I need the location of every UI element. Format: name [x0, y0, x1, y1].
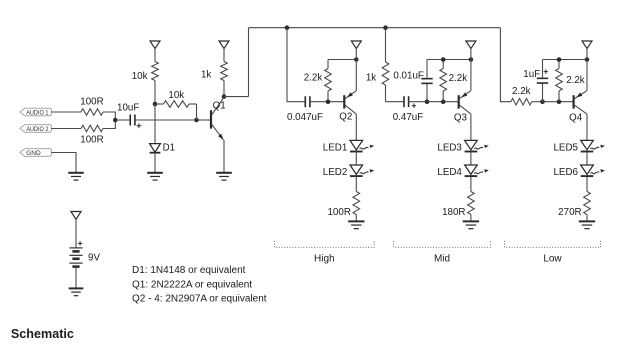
junction Q2 emitter node — [354, 57, 359, 62]
node AUDIO 1 input connector — [20, 108, 51, 116]
LED3 — [437, 140, 488, 153]
wire LED5 to LED6 — [586, 152, 588, 165]
junction bus tap (High) — [285, 25, 290, 30]
wire AUDIO1 to R1 — [51, 111, 81, 113]
svg-text:270R: 270R — [558, 207, 581, 218]
wire LED1 to LED2 — [355, 152, 357, 165]
wire 270R to ground — [586, 215, 588, 222]
ground (battery -) — [69, 288, 84, 295]
capacitor 0.01uF — [393, 60, 432, 102]
ground (Mid chain) — [463, 221, 479, 228]
resistor 100R (audio1) — [80, 96, 103, 115]
LED2 — [323, 165, 374, 178]
wire 180R to ground — [470, 215, 472, 222]
power symbol (Q3 emitter) — [466, 41, 476, 60]
LED5 — [553, 140, 604, 153]
wire LED6 to 270R — [586, 177, 588, 192]
junction Q3 base node — [441, 99, 446, 104]
resistor 1k (Q1 collector) — [201, 62, 227, 97]
power symbol (Q2 emitter) — [351, 41, 361, 60]
LED1 — [323, 140, 374, 153]
svg-text:10k: 10k — [132, 71, 148, 82]
resistor 10k (series) — [155, 90, 197, 108]
junction Q1 collector node — [222, 94, 227, 99]
LED4 — [437, 165, 488, 178]
svg-text:AUDIO 2: AUDIO 2 — [26, 126, 49, 133]
resistor 1k (Mid feed) — [366, 28, 389, 102]
note Q2-4 value — [132, 294, 267, 305]
LED6 — [553, 165, 604, 178]
svg-text:D1: 1N4148 or equivalent: D1: 1N4148 or equivalent — [132, 265, 246, 276]
resistor 100R (High) — [327, 192, 359, 218]
wire battery to ground — [75, 267, 77, 289]
wire C3 to Q2 base — [310, 101, 344, 103]
svg-text:10uF: 10uF — [117, 103, 139, 114]
ground (input GND) — [68, 173, 84, 180]
node GND input connector — [20, 149, 51, 157]
svg-text:Q2 - 4: 2N2907A or equivalent: Q2 - 4: 2N2907A or equivalent — [132, 294, 267, 305]
wire Q2 b-e rail — [328, 59, 356, 61]
wire AUDIO2 to R2 — [51, 128, 81, 130]
svg-text:2.2k: 2.2k — [304, 73, 323, 84]
svg-text:LED6: LED6 — [553, 167, 578, 178]
svg-text:Q2: Q2 — [339, 111, 352, 122]
junction bus tap (Mid) — [383, 25, 388, 30]
capacitor 0.047uF — [287, 96, 323, 123]
svg-text:Q1: Q1 — [213, 100, 226, 111]
wire C 10uF to Q1 base — [135, 119, 210, 121]
wire 1uF node to Q4 base — [543, 101, 574, 103]
svg-text:Mid: Mid — [434, 254, 450, 265]
svg-text:1uF: 1uF — [523, 69, 540, 80]
svg-text:Q4: Q4 — [569, 112, 583, 123]
resistor 2.2k (Q4 b-e) — [556, 60, 585, 102]
power symbol (battery +) — [71, 212, 81, 248]
junction 2.2k top (Mid) — [441, 57, 446, 62]
resistor 180R (Mid) — [442, 192, 474, 218]
junction Q2 base node — [326, 99, 331, 104]
svg-text:AUDIO 1: AUDIO 1 — [26, 109, 49, 116]
wire Q4 b-e rail — [543, 59, 588, 61]
svg-text:LED3: LED3 — [437, 143, 462, 154]
ground (High chain) — [348, 221, 364, 228]
note D1 value — [132, 265, 246, 276]
svg-text:Q1: 2N2222A or equivalent: Q1: 2N2222A or equivalent — [132, 279, 252, 290]
wire bus left drop — [248, 28, 250, 97]
resistor 2.2k (Q3 b-e) — [440, 60, 467, 102]
svg-text:Schematic: Schematic — [11, 327, 74, 341]
title Schematic — [11, 327, 74, 341]
junction Q4 base node — [557, 99, 562, 104]
ground (under D1) — [147, 173, 163, 180]
power symbol (over 1k) — [219, 41, 229, 62]
resistor 2.2k (Q2 b-e) — [304, 60, 332, 102]
svg-text:LED2: LED2 — [323, 167, 348, 178]
wire LED3 to LED4 — [470, 152, 472, 165]
svg-text:2.2k: 2.2k — [449, 73, 468, 84]
wire 100R to ground — [355, 215, 357, 222]
transistor Q3 — [454, 60, 471, 141]
svg-text:1k: 1k — [201, 69, 211, 80]
diode D1 — [150, 142, 176, 153]
wire mix node to C 10uF — [115, 119, 130, 121]
transistor Q4 — [569, 60, 587, 141]
wire LED4 to 180R — [470, 177, 472, 192]
wire D1 to ground — [154, 153, 156, 173]
transistor Q2 — [339, 60, 356, 141]
wire bus tap down to C3 — [287, 28, 305, 102]
wire supply bus (top) — [249, 27, 501, 29]
junction 0.01uF bottom node — [425, 99, 430, 104]
transistor Q1 — [197, 97, 226, 140]
junction bias node — [153, 102, 158, 107]
junction Q4 emitter node — [585, 57, 590, 62]
junction 2.2k top (Low) — [557, 57, 562, 62]
brace High — [275, 241, 375, 265]
node AUDIO 2 input connector — [20, 125, 51, 133]
ground (Q1 emitter) — [216, 173, 232, 180]
power symbol (over 10k) — [150, 41, 160, 62]
wire Q3 b-e rail — [427, 59, 471, 61]
svg-text:Low: Low — [543, 254, 562, 265]
wire R1 to mix node — [103, 112, 115, 120]
ground (Low chain) — [579, 221, 595, 228]
resistor 2.2k (Low feed) — [511, 86, 543, 105]
svg-text:2.2k: 2.2k — [566, 75, 585, 86]
svg-text:2.2k: 2.2k — [512, 86, 531, 97]
svg-text:100R: 100R — [80, 96, 103, 107]
wire GND tag to ground — [51, 153, 76, 173]
svg-text:D1: D1 — [163, 142, 176, 153]
junction 1uF bottom node — [540, 99, 545, 104]
junction Q3 emitter node — [469, 57, 474, 62]
svg-text:LED5: LED5 — [553, 143, 578, 154]
note Q1 value — [132, 279, 252, 290]
brace Low — [505, 241, 601, 265]
svg-text:0.47uF: 0.47uF — [393, 112, 424, 123]
wire R2 to mix node — [103, 120, 115, 129]
svg-text:0.047uF: 0.047uF — [287, 112, 323, 123]
wire LED2 to 100R — [355, 177, 357, 192]
svg-text:GND: GND — [26, 150, 41, 157]
wire bias node to D1 — [154, 104, 156, 144]
capacitor 1uF — [523, 60, 548, 102]
svg-text:LED1: LED1 — [323, 143, 348, 154]
resistor 100R (audio2) — [80, 125, 103, 145]
svg-text:Q3: Q3 — [454, 112, 468, 123]
brace Mid — [394, 241, 491, 265]
wire Q1 emitter to ground — [223, 140, 225, 173]
battery 9V — [69, 241, 100, 266]
svg-text:9V: 9V — [88, 253, 100, 264]
capacitor 0.47uF — [393, 96, 424, 123]
wire 10k to Q1 base node — [196, 104, 198, 120]
wire C4 to Q3 base — [409, 101, 459, 103]
svg-text:High: High — [314, 254, 335, 265]
svg-text:10k: 10k — [168, 90, 184, 101]
resistor 10k (pull-up) — [132, 62, 159, 105]
svg-text:180R: 180R — [442, 207, 465, 218]
wire 1k to C4 — [386, 101, 405, 103]
svg-text:0.01uF: 0.01uF — [393, 70, 424, 81]
power symbol (Q4 emitter) — [582, 41, 592, 60]
capacitor 10uF — [117, 103, 141, 129]
svg-text:100R: 100R — [80, 135, 103, 146]
svg-text:100R: 100R — [327, 207, 350, 218]
junction mix node — [113, 118, 118, 123]
resistor 270R (Low) — [558, 192, 590, 218]
wire Q1 collector to bus — [224, 96, 249, 98]
junction Q1 base node — [194, 118, 199, 123]
svg-text:1k: 1k — [366, 72, 376, 83]
svg-text:LED4: LED4 — [437, 167, 462, 178]
wire bus right drop — [500, 28, 511, 102]
